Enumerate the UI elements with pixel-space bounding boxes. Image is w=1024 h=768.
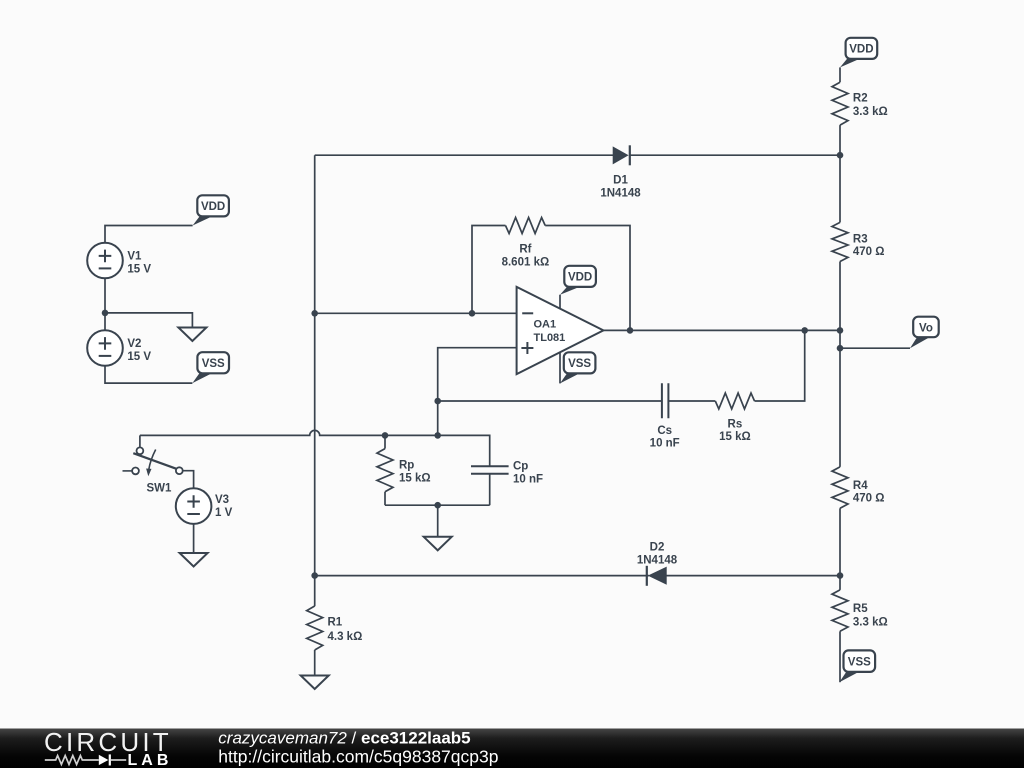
svg-text:470 Ω: 470 Ω [853, 492, 885, 504]
resistor R4 [832, 467, 848, 508]
svg-text:Rs: Rs [728, 418, 743, 430]
wire [839, 508, 841, 590]
node V1-V2 [102, 310, 109, 317]
wire [839, 67, 841, 82]
svg-text:15 kΩ: 15 kΩ [719, 431, 751, 443]
wire [438, 400, 662, 402]
node rail out [837, 327, 844, 334]
resistor R5 [832, 590, 848, 631]
svg-text:VSS: VSS [848, 656, 871, 668]
node D2 out [837, 572, 844, 579]
svg-text:SW1: SW1 [147, 482, 173, 494]
op-amp VSS pin [559, 352, 561, 383]
logo resistor-diode [45, 754, 126, 765]
wire plus input [438, 348, 517, 436]
wire [666, 575, 840, 577]
svg-text:LAB: LAB [128, 752, 173, 768]
svg-text:15 kΩ: 15 kΩ [399, 472, 431, 484]
svg-text:R5: R5 [853, 603, 868, 615]
svg-text:VSS: VSS [568, 358, 591, 370]
ground [301, 676, 329, 690]
resistor R2 [832, 82, 848, 125]
node gnd [434, 502, 441, 509]
net flag VSS [560, 373, 580, 383]
svg-text:R1: R1 [328, 617, 343, 629]
wire [139, 435, 141, 447]
svg-text:V2: V2 [127, 338, 141, 350]
resistor R3 [832, 222, 848, 261]
node D1 out [837, 152, 844, 159]
svg-text:TL081: TL081 [534, 332, 566, 344]
svg-text:1 V: 1 V [215, 507, 233, 519]
capacitor Cp [471, 466, 509, 474]
svg-text:R4: R4 [853, 480, 868, 492]
voltage source V2 [87, 330, 123, 366]
svg-text:3.3 kΩ: 3.3 kΩ [853, 106, 888, 118]
svg-text:V1: V1 [127, 251, 142, 263]
net flag VSS [839, 672, 859, 682]
svg-text:VSS: VSS [202, 358, 225, 370]
resistor Rf feedback [472, 226, 506, 314]
wire [839, 631, 841, 682]
svg-text:Rp: Rp [399, 460, 414, 472]
node Rf out [627, 327, 634, 334]
ground [424, 537, 452, 551]
capacitor Cs [662, 383, 669, 418]
wire [105, 313, 192, 328]
resistor Rs [715, 393, 754, 409]
wire minus input [315, 312, 517, 314]
svg-text:15 V: 15 V [127, 351, 151, 363]
resistor R1 [314, 605, 316, 607]
svg-text:Rf: Rf [519, 243, 531, 255]
svg-text:VDD: VDD [568, 272, 592, 284]
svg-text:V3: V3 [215, 494, 229, 506]
node Cs-Rs out [801, 327, 808, 334]
wire to Vo [840, 347, 910, 349]
net flag VDD [193, 216, 213, 225]
net flag VDD [560, 287, 580, 295]
diode D2 [647, 566, 666, 586]
svg-text:Cp: Cp [513, 461, 528, 473]
net flag Vo [910, 337, 930, 348]
op-amp VDD pin [559, 295, 561, 309]
wire [315, 575, 649, 577]
node plus-net [434, 432, 441, 439]
svg-text:1N4148: 1N4148 [600, 187, 641, 199]
net flag VDD [840, 59, 860, 68]
wire [839, 125, 841, 222]
ground [178, 328, 206, 342]
net flag VSS [192, 373, 212, 383]
svg-text:R3: R3 [853, 234, 868, 246]
svg-text:15 V: 15 V [127, 263, 151, 275]
voltage source V3 [176, 488, 212, 524]
svg-text:1N4148: 1N4148 [637, 555, 678, 567]
wire [755, 330, 805, 401]
svg-text:Cs: Cs [657, 425, 672, 437]
wire [315, 154, 614, 156]
wire [105, 226, 193, 244]
wire [668, 400, 715, 402]
wire [104, 278, 106, 330]
svg-text:8.601 kΩ: 8.601 kΩ [502, 256, 550, 268]
svg-text:crazycaveman72 / ece3122laab5: crazycaveman72 / ece3122laab5 [218, 729, 470, 748]
svg-text:OA1: OA1 [534, 319, 557, 331]
svg-text:Vo: Vo [919, 322, 933, 334]
svg-text:D1: D1 [613, 174, 628, 186]
svg-text:10 nF: 10 nF [650, 438, 680, 450]
wire [183, 471, 194, 489]
wire output [603, 329, 840, 331]
ground [180, 553, 208, 567]
wire [385, 504, 490, 506]
svg-text:4.3 kΩ: 4.3 kΩ [328, 631, 363, 643]
node Cs tap [434, 398, 441, 405]
node Rp top [382, 432, 389, 439]
wire [630, 154, 840, 156]
node Vo tap [837, 345, 844, 352]
svg-text:http://circuitlab.com/c5q98387: http://circuitlab.com/c5q98387qcp3p [218, 747, 498, 767]
svg-text:VDD: VDD [849, 44, 873, 56]
wire [437, 505, 439, 537]
switch SW1 [123, 447, 183, 476]
wire [839, 262, 841, 467]
svg-text:R2: R2 [853, 93, 868, 105]
node Rf tap [469, 310, 476, 317]
svg-text:VDD: VDD [201, 201, 225, 213]
wire [105, 366, 192, 383]
wire with crossover hop [140, 430, 490, 466]
voltage source V1 [87, 243, 123, 279]
node minus-net [311, 310, 318, 317]
footer bar [0, 729, 1024, 768]
node D2-net [311, 572, 318, 579]
wire left rail [314, 155, 316, 606]
svg-text:3.3 kΩ: 3.3 kΩ [853, 617, 888, 629]
svg-text:D2: D2 [650, 542, 665, 554]
svg-text:10 nF: 10 nF [513, 473, 543, 485]
op-amp OA1 [517, 287, 604, 374]
resistor Rp [384, 435, 386, 448]
wire [193, 524, 195, 553]
diode D1 [613, 145, 630, 165]
svg-text:470 Ω: 470 Ω [853, 246, 885, 258]
